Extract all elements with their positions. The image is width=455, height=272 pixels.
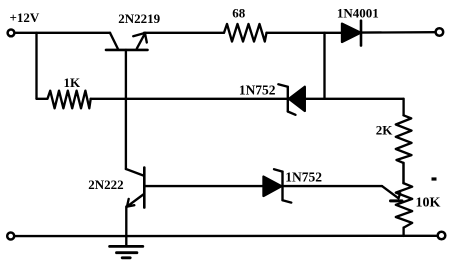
wire left branch vertical: [35, 33, 37, 99]
wire zener D3 to wiper: [284, 185, 383, 187]
wire 10K to bottom rail: [402, 228, 404, 237]
svg-text:1K: 1K: [63, 75, 81, 90]
svg-text:68: 68: [232, 6, 246, 21]
zener D3 1N752: [264, 169, 292, 202]
svg-text:10K: 10K: [416, 196, 441, 211]
svg-text:2K: 2K: [376, 123, 394, 138]
wire 2K to 10K: [402, 163, 405, 183]
wire mid horizontal right segment: [305, 98, 404, 100]
wire junction vertical node A: [323, 33, 325, 99]
transistor Q1 2N2219: [106, 33, 148, 50]
transistor Q2 2N222: [126, 168, 144, 208]
wiper arrow of potentiometer: [382, 186, 402, 201]
svg-text:1N752: 1N752: [285, 170, 322, 185]
potentiometer R4 10K: [396, 183, 412, 227]
wire bottom rail: [15, 235, 438, 238]
terminal T2 output top: [436, 28, 444, 36]
wire right branch upper vertical: [402, 99, 404, 116]
resistor R1 68: [224, 24, 267, 42]
diode D1 1N4001: [342, 21, 361, 46]
wire Q2 base to zener D3: [144, 185, 263, 187]
wire top rail middle segment: [144, 32, 224, 34]
terminal T1 +12V input: [8, 30, 15, 37]
wire Q1 base lead down: [125, 50, 127, 169]
zener D2 1N752: [278, 84, 305, 115]
wire mid horizontal left segment: [91, 98, 287, 100]
svg-text:+12V: +12V: [10, 10, 40, 25]
terminal T3 bottom left: [7, 233, 14, 240]
polarity minus mark: [432, 177, 437, 180]
wire top rail right segment: [267, 32, 343, 34]
svg-text:2N222: 2N222: [88, 177, 123, 192]
wire Q2 emitter to bottom rail: [125, 207, 127, 236]
ground: [110, 236, 143, 258]
resistor R3 2K: [396, 115, 412, 163]
wire top rail left segment: [16, 32, 110, 34]
wire diode to output terminal: [361, 31, 435, 34]
resistor R2 1K: [37, 91, 91, 109]
svg-text:1N4001: 1N4001: [337, 6, 379, 21]
terminal T4 bottom right: [438, 232, 446, 240]
svg-text:2N2219: 2N2219: [118, 11, 160, 26]
svg-text:1N752: 1N752: [239, 83, 276, 98]
